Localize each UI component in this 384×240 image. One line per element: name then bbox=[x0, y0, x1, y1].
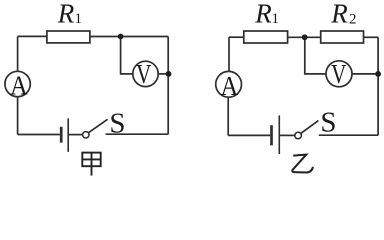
svg-text:S: S bbox=[320, 106, 336, 138]
svg-text:2: 2 bbox=[349, 12, 357, 28]
svg-text:R: R bbox=[330, 0, 348, 29]
svg-text:A: A bbox=[221, 71, 239, 101]
svg-text:1: 1 bbox=[272, 11, 280, 27]
svg-text:S: S bbox=[109, 107, 125, 139]
svg-text:V: V bbox=[136, 60, 152, 90]
svg-text:A: A bbox=[10, 70, 28, 100]
svg-text:V: V bbox=[331, 59, 347, 89]
svg-text:R: R bbox=[57, 0, 75, 29]
svg-text:1: 1 bbox=[75, 11, 83, 27]
svg-text:R: R bbox=[254, 0, 272, 29]
